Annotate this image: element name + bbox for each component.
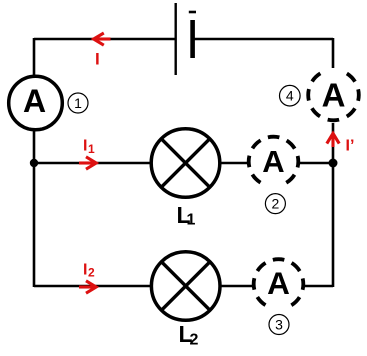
- svg-text:2: 2: [190, 332, 199, 349]
- svg-text:I: I: [83, 137, 87, 154]
- svg-text:A: A: [23, 83, 46, 119]
- svg-text:A: A: [267, 265, 290, 301]
- svg-text:I: I: [95, 50, 100, 69]
- svg-text:A: A: [262, 144, 284, 179]
- svg-text:1: 1: [74, 95, 82, 111]
- svg-text:2: 2: [272, 196, 280, 212]
- svg-text:I: I: [83, 261, 87, 278]
- svg-text:2: 2: [88, 266, 95, 280]
- svg-text:3: 3: [275, 317, 283, 333]
- svg-text:4: 4: [286, 88, 294, 104]
- svg-text:1: 1: [88, 142, 95, 156]
- svg-text:I’: I’: [346, 137, 355, 154]
- svg-text:A: A: [322, 77, 346, 114]
- svg-text:1: 1: [187, 212, 196, 229]
